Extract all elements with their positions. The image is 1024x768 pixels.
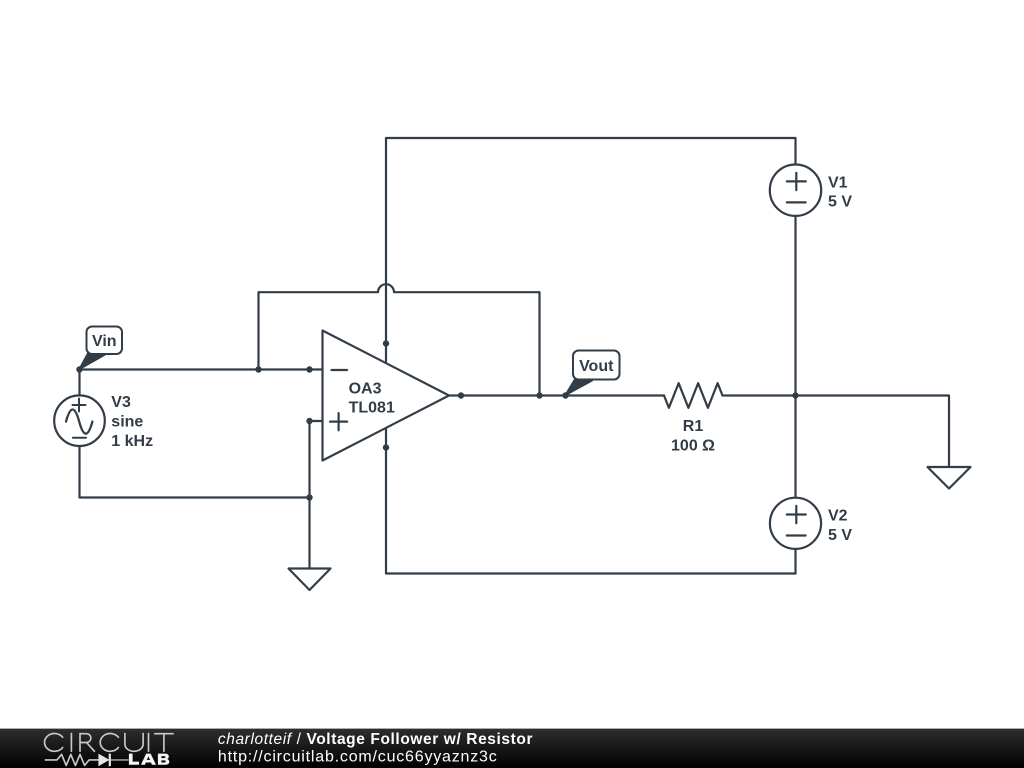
wire V2 bottom stub (794, 549, 796, 574)
V3 plus sign (73, 399, 86, 412)
junction dot op-amp V- pin (383, 444, 389, 450)
svg-text:http://circuitlab.com/cuc66yya: http://circuitlab.com/cuc66yyaznz3c (218, 748, 498, 765)
CircuitLab logo diode (98, 754, 109, 767)
V1 plus sign (787, 173, 806, 190)
wire Vin node to op-amp inverting input (80, 368, 323, 370)
wire op-amp output to resistor R1 (449, 394, 664, 396)
ground symbol left (289, 569, 331, 591)
svg-text:TL081: TL081 (349, 400, 395, 417)
wire resistor R1 to right ground corner (723, 396, 950, 468)
junction dot non-inverting input pin (306, 418, 312, 424)
junction dot rail output tap (792, 392, 798, 398)
svg-text:sine: sine (111, 414, 143, 431)
wire right rail V1 to V2 (794, 216, 796, 498)
svg-text:5 V: 5 V (828, 194, 852, 211)
footer black bar (0, 729, 1024, 768)
node label Vin box (87, 327, 123, 355)
V2 plus sign (787, 506, 806, 523)
svg-text:OA3: OA3 (349, 380, 382, 397)
voltage source V2 circle (770, 498, 821, 549)
wire V3 top stub (78, 370, 80, 396)
junction dot feedback tap (255, 366, 261, 372)
op-amp OA3 triangle (323, 331, 450, 461)
CircuitLab logo CIRCUIT letters (45, 734, 174, 752)
junction dot op-amp output pin (458, 392, 464, 398)
V1 minus sign (787, 201, 806, 203)
V2 minus sign (787, 534, 806, 536)
svg-text:Vin: Vin (92, 333, 117, 350)
node label Vout box (573, 351, 620, 380)
ground symbol right (928, 467, 971, 489)
svg-text:charlotteif / Voltage Follower: charlotteif / Voltage Follower w/ Resist… (218, 731, 533, 748)
svg-text:R1: R1 (683, 418, 704, 435)
CircuitLab logo LAB letters (129, 754, 169, 765)
voltage source V1 circle (770, 165, 821, 216)
svg-text:V2: V2 (828, 508, 848, 525)
resistor R1 zigzag (664, 383, 723, 408)
wire riser to op-amp non-inverting input (310, 421, 323, 498)
op-amp OA3 plus input symbol (330, 413, 347, 430)
wire op-amp V- pin down to bottom rail (386, 428, 796, 574)
node label Vin pointer (80, 353, 106, 370)
svg-text:100 Ω: 100 Ω (671, 438, 715, 455)
V3 minus sign (73, 437, 86, 439)
junction dot Vout node (562, 392, 568, 398)
junction dot Vin node (76, 366, 82, 372)
wire feedback loop with hop (259, 284, 540, 395)
svg-text:V3: V3 (111, 394, 131, 411)
CircuitLab logo resistor-diode line (45, 754, 129, 765)
op-amp OA3 minus input symbol (332, 369, 348, 371)
wire ground stub left (308, 498, 310, 569)
svg-text:5 V: 5 V (828, 527, 852, 544)
wire V3 bottom to +input riser bottom (80, 446, 310, 498)
junction dot op-amp V+ pin (383, 340, 389, 346)
node label Vout pointer (566, 379, 593, 396)
voltage source V3 circle (54, 395, 105, 446)
junction dot inverting input pin (306, 366, 312, 372)
V3 sine symbol (66, 410, 92, 434)
wire top rail from op-amp V+ to V1 (386, 138, 796, 362)
junction dot feedback output tap (536, 392, 542, 398)
svg-text:1 kHz: 1 kHz (111, 433, 153, 450)
svg-text:V1: V1 (828, 175, 848, 192)
junction dot ground riser (306, 494, 312, 500)
svg-text:Vout: Vout (579, 358, 614, 375)
